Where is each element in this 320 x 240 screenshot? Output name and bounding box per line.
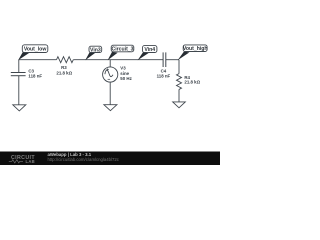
svg-text:21.8 kΩ: 21.8 kΩ [184,80,200,85]
svg-text:Vout_low: Vout_low [24,47,47,53]
svg-text:50 Hz: 50 Hz [120,76,132,81]
svg-text:Vout_high: Vout_high [183,46,208,52]
svg-text:http://circuitlab.com/c/amlcng: http://circuitlab.com/c/amlcngla4bl72c [48,157,120,162]
svg-text:118 nF: 118 nF [157,74,171,79]
svg-text:LAB: LAB [26,159,36,164]
svg-text:Vin3: Vin3 [90,47,101,53]
svg-text:118 nF: 118 nF [28,74,42,79]
svg-text:V3: V3 [120,66,126,71]
svg-text:21.8 kΩ: 21.8 kΩ [56,70,72,75]
svg-text:Circuit_3: Circuit_3 [112,46,134,52]
svg-text:Vin4: Vin4 [144,47,155,53]
